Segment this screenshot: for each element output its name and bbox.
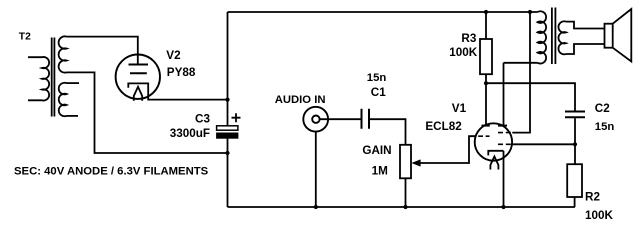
wire C2 bottom to node and R2	[574, 118, 576, 164]
speaker LS1 cone	[613, 9, 632, 62]
tube V1 pentode anode plate	[498, 125, 507, 127]
junction dot top rail R3	[484, 10, 488, 14]
svg-text:100K: 100K	[585, 209, 614, 222]
wire left rail upper (top corner to C3 top plate)	[227, 12, 229, 126]
transformer T2 core	[52, 38, 55, 117]
tube V1 heater filament	[490, 157, 498, 170]
transformer T2 secondary top winding (40V anode)	[59, 36, 67, 72]
tube V1 triode anode plate	[482, 125, 490, 127]
tube V2 cathode sleeve and lead to rail	[128, 83, 227, 99]
svg-text:PY88: PY88	[167, 66, 196, 79]
capacitor C3 top plate	[217, 126, 238, 130]
svg-text:3300uF: 3300uF	[170, 127, 210, 140]
wire R2 bottom lead	[574, 197, 576, 207]
wire output primary bottom to V1 pentode anode	[504, 62, 538, 64]
svg-text:C2: C2	[595, 102, 610, 115]
svg-text:SEC: 40V ANODE / 6.3V FILAMENT: SEC: 40V ANODE / 6.3V FILAMENTS	[14, 165, 209, 177]
wire left rail lower (C3 bottom plate to bottom rail corner)	[227, 138, 229, 207]
wire C1 to GAIN pot top	[369, 119, 406, 145]
junction dot C2 R2 grid node	[573, 142, 577, 146]
capacitor C1 plates	[362, 109, 370, 129]
svg-text:GAIN: GAIN	[362, 144, 391, 157]
audio input jack J1 outer	[303, 107, 328, 132]
wire filament winding top stub	[67, 82, 80, 84]
transformer T2 secondary bottom winding (6.3V filaments)	[59, 83, 67, 116]
wire jack pin to C1	[320, 118, 362, 120]
wire pot wiper to V1 triode grid	[420, 136, 476, 163]
tube V1 screen grid (dashed)	[498, 132, 512, 134]
audio input jack J1 center pin	[312, 116, 319, 123]
junction dot top rail screen	[528, 10, 532, 14]
svg-text:V1: V1	[452, 102, 467, 115]
junction dot R3 bottom node	[484, 81, 488, 85]
capacitor C3 bottom plate	[217, 133, 238, 138]
junction dot rail pot ground	[403, 205, 407, 209]
wire T2 tap lead down and right to C3 bottom node	[67, 72, 228, 153]
junction dot left rail tap	[225, 151, 229, 155]
svg-text:100K: 100K	[449, 46, 478, 59]
svg-text:ECL82: ECL82	[425, 120, 462, 133]
tube V1 envelope	[475, 123, 512, 160]
tube V1 cathode sleeve	[488, 151, 503, 156]
svg-text:C3: C3	[195, 113, 210, 126]
junction dot rail cathode ground	[501, 205, 505, 209]
output transformer core	[552, 8, 556, 65]
output transformer secondary winding	[558, 21, 566, 54]
svg-text:T2: T2	[19, 32, 31, 43]
wire secondary top to speaker	[566, 22, 605, 29]
tube V2 envelope	[116, 54, 160, 98]
tube V1 pentode control grid (dashed)	[498, 143, 512, 145]
svg-text:R3: R3	[461, 32, 476, 45]
resistor R3 body	[480, 39, 492, 74]
wire pot bottom to rail	[405, 178, 407, 207]
capacitor C2 plates	[565, 112, 585, 118]
svg-text:15n: 15n	[367, 72, 387, 84]
potentiometer wiper arrow head	[411, 159, 420, 166]
tube V2 anode plate	[129, 63, 149, 65]
wire triode anode node down to V1	[485, 83, 487, 125]
svg-text:C1: C1	[371, 86, 386, 99]
wire V1 pentode anode lead	[503, 63, 505, 126]
wire top rail	[228, 11, 538, 13]
capacitor C3 polarity plus	[232, 113, 241, 122]
svg-text:V2: V2	[166, 49, 181, 62]
speaker LS1 driver	[605, 24, 613, 48]
junction dot rail jack ground	[314, 205, 318, 209]
wire bottom rail	[228, 206, 576, 208]
wire jack ground to bottom rail	[315, 132, 317, 207]
svg-text:R2: R2	[585, 190, 600, 203]
wire secondary bottom to speaker	[566, 44, 605, 54]
wire pentode grid to C2/R2 node	[512, 143, 575, 145]
wire filament winding bottom stub	[67, 115, 79, 117]
wire coupling node R3 to C2	[486, 83, 575, 110]
potentiometer GAIN 1M body	[400, 145, 411, 179]
transformer T2 primary winding	[28, 57, 49, 101]
tube V1 triode grid (dashed)	[471, 135, 490, 137]
wire R3 bottom lead to node	[485, 74, 487, 83]
wire screen grid to top rail	[512, 12, 530, 133]
resistor R2 body	[567, 164, 582, 197]
svg-text:AUDIO IN: AUDIO IN	[275, 94, 326, 106]
wire V1 cathode to bottom rail	[503, 151, 505, 207]
tube V2 cathode bar	[130, 72, 147, 74]
output transformer primary winding	[538, 11, 547, 63]
svg-text:15n: 15n	[595, 121, 615, 133]
svg-text:1M: 1M	[372, 164, 388, 177]
wire R3 top lead	[485, 12, 487, 39]
tube V2 heater filament	[134, 87, 142, 101]
junction dot left rail V2 cathode	[225, 98, 229, 102]
wire T2 secondary top lead to V2 anode	[67, 37, 138, 65]
